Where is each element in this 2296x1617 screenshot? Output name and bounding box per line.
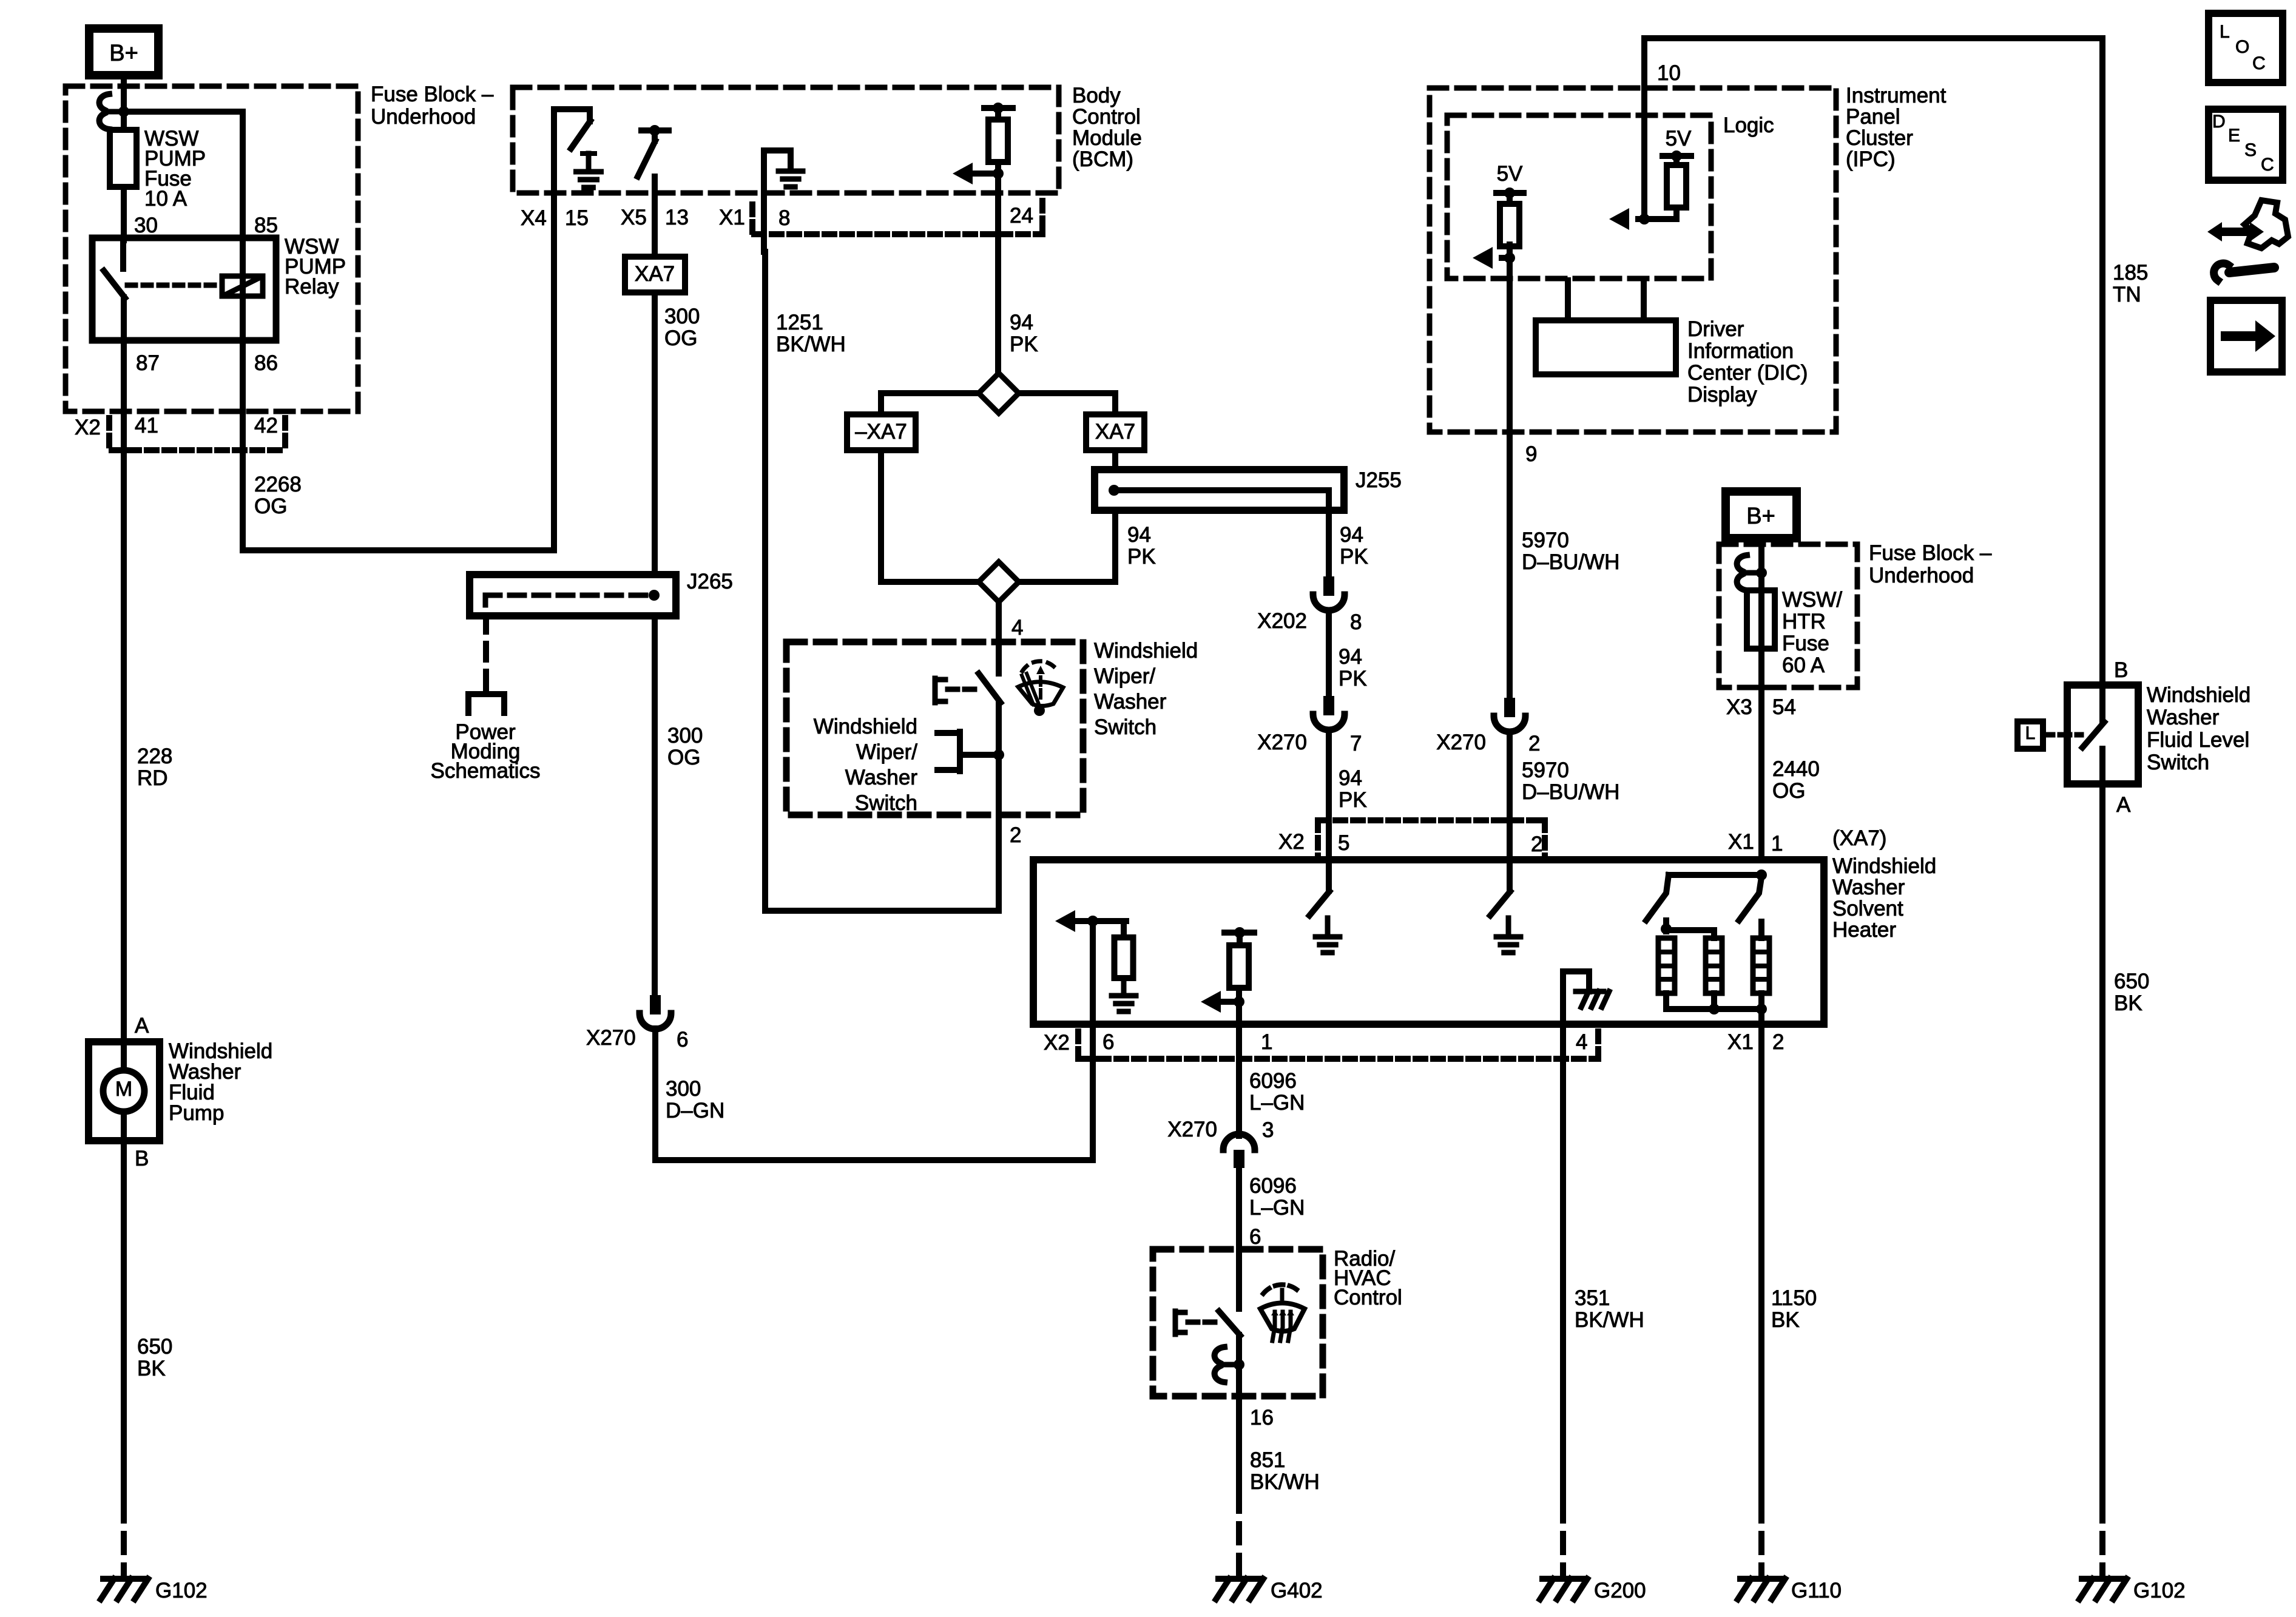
label driver information center (1687, 317, 1808, 407)
pin 85 label (254, 214, 278, 237)
svg-text:(BCM): (BCM) (1072, 147, 1133, 171)
svg-text:X270: X270 (1436, 731, 1486, 754)
ground symbol heater 2 (1496, 918, 1521, 953)
wiper glyph (washer symbol) (1018, 661, 1063, 716)
BCM internal switch to ground (X4-15) (554, 109, 590, 149)
label 300 OG upper (664, 305, 700, 350)
wire 5970 to heater X2-2 (1507, 733, 1513, 860)
svg-text:94: 94 (1339, 645, 1362, 669)
relay switch arm (104, 271, 125, 298)
heater resistor left branch (1093, 921, 1133, 978)
svg-text:Display: Display (1687, 383, 1757, 407)
pin 6 label radio (1249, 1225, 1261, 1249)
label 650 BK right (2114, 970, 2149, 1015)
5V source right (logic) (1663, 127, 1692, 165)
off-page fork symbol (468, 684, 504, 713)
driver information center DIC display box (1536, 280, 1676, 374)
radio actuator bracket E (1175, 1311, 1218, 1334)
fluid switch lower stub (2099, 749, 2105, 784)
svg-text:94: 94 (1010, 311, 1033, 334)
pin X1 1 labels (1728, 830, 1783, 856)
pin X3 54 labels (1726, 695, 1796, 719)
wire 851 BK/WH (1236, 1396, 1242, 1573)
svg-text:Washer: Washer (845, 766, 918, 789)
wire 300 OG upper (652, 292, 658, 575)
pin 42 label (254, 414, 278, 437)
wire 94 PK to heater X2-5 (1326, 733, 1332, 860)
label 351 BK/WH (1575, 1286, 1644, 1332)
connector X270 pin 7 (1313, 696, 1345, 730)
fuse clip (100, 94, 119, 129)
svg-text:6: 6 (1102, 1030, 1114, 1054)
label 650 BK left (137, 1335, 172, 1380)
svg-text:Center (DIC): Center (DIC) (1687, 361, 1808, 385)
svg-text:851: 851 (1250, 1448, 1285, 1472)
svg-text:Solvent: Solvent (1832, 897, 1903, 920)
svg-text:650: 650 (2114, 970, 2149, 993)
label 1251 BK/WH (776, 311, 846, 356)
connector XA7 box (625, 257, 685, 292)
label 94 PK right (1340, 523, 1368, 569)
wire 6096 L-GN upper (1236, 1024, 1242, 1136)
svg-text:8: 8 (1350, 610, 1362, 634)
label 2268 OG (254, 473, 302, 518)
svg-text:X270: X270 (1257, 731, 1307, 754)
label 185 TN (2113, 261, 2148, 306)
svg-text:Washer: Washer (1832, 876, 1905, 899)
svg-text:Fuse: Fuse (1782, 632, 1829, 655)
svg-text:Windshield: Windshield (1832, 854, 1936, 878)
svg-text:L: L (2220, 22, 2230, 42)
pin 4 label (1011, 616, 1023, 640)
svg-text:(IPC): (IPC) (1846, 147, 1896, 171)
svg-text:94: 94 (1340, 523, 1363, 547)
pin B label pump (135, 1147, 149, 1170)
BCM pull-up resistor pin 24 (984, 103, 1013, 373)
svg-text:L–GN: L–GN (1249, 1196, 1305, 1220)
label instrument panel cluster (1846, 84, 1947, 171)
svg-text:1251: 1251 (776, 311, 823, 334)
svg-text:S: S (2244, 140, 2257, 160)
junction dot radio (1234, 1359, 1244, 1370)
svg-text:Driver: Driver (1687, 317, 1744, 341)
icon box LOC (2209, 13, 2283, 83)
svg-text:Information: Information (1687, 339, 1794, 363)
wiper switch arm (979, 673, 1001, 703)
label power moding schematics (431, 720, 541, 783)
svg-text:1: 1 (1261, 1030, 1272, 1054)
label 94 PK low (1339, 766, 1367, 812)
wire diamond to XA7 box (1019, 393, 1115, 414)
svg-text:D–BU/WH: D–BU/WH (1522, 550, 1619, 574)
svg-text:G402: G402 (1271, 1579, 1323, 1602)
wire 650 BK right (2099, 784, 2105, 1573)
svg-text:B+: B+ (1746, 504, 1775, 529)
svg-text:10 A: 10 A (144, 187, 187, 211)
wire 94 PK left of J255 (1019, 510, 1115, 582)
diamond junction lower (979, 562, 1019, 602)
BCM pin row labels (521, 204, 1033, 230)
wiper switch detent bracket (937, 732, 999, 771)
heater elements bottom bus (1666, 993, 1767, 1024)
labels X2 6 1 4 (1044, 1030, 1587, 1055)
label 94 PK mid (1339, 645, 1367, 690)
svg-text:OG: OG (664, 326, 697, 350)
svg-text:4: 4 (1011, 616, 1023, 640)
label windshield washer solvent heater (1832, 826, 1886, 850)
label X270 (7) (1257, 731, 1362, 755)
svg-text:2268: 2268 (254, 473, 302, 496)
junction dot node B+ feed (118, 106, 129, 117)
heater switch to ground (pin5) (1309, 860, 1329, 916)
label X270 (2) (1436, 731, 1540, 755)
connector XA7 box right (1086, 414, 1144, 450)
wire relay 30-87 through (121, 297, 127, 340)
label 300 D-GN (666, 1077, 724, 1122)
labels X1 2 bottom (1727, 1030, 1784, 1054)
heater arrow out pin6 (1055, 910, 1098, 932)
pin 9 label (1525, 442, 1537, 466)
connector X2 row (pins 41 42) (109, 418, 285, 450)
svg-text:60 A: 60 A (1782, 653, 1825, 677)
svg-text:X202: X202 (1257, 609, 1307, 633)
svg-text:X2: X2 (1044, 1031, 1070, 1055)
svg-text:TN: TN (2113, 283, 2141, 306)
svg-text:B+: B+ (109, 41, 138, 66)
svg-text:Switch: Switch (1094, 715, 1156, 739)
svg-text:PK: PK (1340, 545, 1368, 569)
svg-text:15: 15 (565, 206, 589, 230)
svg-text:D: D (2212, 112, 2226, 132)
svg-text:X4: X4 (521, 206, 547, 230)
svg-text:10: 10 (1657, 61, 1681, 85)
connector X2 top row (5,2) (1318, 820, 1545, 857)
level sensor L box (2017, 721, 2043, 749)
svg-text:G102: G102 (2133, 1579, 2186, 1602)
pin 86 label (254, 351, 278, 375)
wire feed to relay pin 85 (124, 112, 243, 240)
svg-text:XA7: XA7 (1095, 420, 1135, 444)
wire 5V left down to pin 9 (1507, 258, 1513, 432)
fuse block underhood dashed box (66, 86, 358, 411)
svg-text:Underhood: Underhood (1869, 564, 1974, 587)
svg-text:G102: G102 (155, 1579, 208, 1602)
svg-text:X1: X1 (1727, 1030, 1754, 1054)
svg-text:300: 300 (666, 1077, 701, 1101)
windshield washer fluid level switch box (2067, 685, 2138, 784)
label J255 (1356, 468, 1402, 492)
svg-text:Cluster: Cluster (1846, 126, 1913, 150)
wire relay 85-86 through (240, 238, 246, 340)
ground symbol in BCM left (576, 154, 601, 187)
power symbol B+ right (1726, 491, 1797, 538)
svg-text:1150: 1150 (1771, 1286, 1817, 1310)
svg-text:Instrument: Instrument (1846, 84, 1947, 107)
svg-text:24: 24 (1010, 204, 1033, 228)
relay WSW PUMP box (92, 238, 276, 340)
label X270 (6) (586, 1026, 688, 1052)
svg-text:Body: Body (1072, 84, 1121, 107)
5V source left (1496, 162, 1524, 204)
svg-text:C: C (2252, 53, 2266, 73)
svg-text:6: 6 (1249, 1225, 1261, 1249)
label heater name (1832, 854, 1936, 942)
heater element 2 (1706, 938, 1722, 993)
icon box arrow right (2210, 300, 2282, 372)
label 851 BK/WH (1250, 1448, 1320, 1494)
heater element 1 (1658, 938, 1675, 993)
svg-text:300: 300 (667, 724, 703, 748)
svg-text:Washer: Washer (1094, 690, 1167, 714)
svg-text:228: 228 (137, 744, 172, 768)
radio switch arm (1219, 1311, 1240, 1335)
svg-text:Control: Control (1072, 105, 1141, 129)
label WSW HTR fuse 60 A (1782, 588, 1842, 677)
fuse clip 2 (1737, 555, 1757, 590)
wire pump B to G102 (650 BK) (121, 1141, 127, 1573)
label fuse block underhood 2 (1869, 541, 1992, 587)
fuse WSW/HTR 60A (1747, 590, 1775, 687)
connector X270 pin 3 (1223, 1134, 1255, 1168)
signal arrow left (pin9) (1473, 247, 1515, 269)
label 5970 upper (1522, 528, 1619, 574)
label WSW PUMP relay (285, 235, 346, 299)
svg-text:J265: J265 (687, 570, 733, 593)
wire diamond to -XA7 (881, 393, 979, 414)
svg-text:13: 13 (665, 206, 689, 229)
wire XA7 into J255 (1112, 450, 1118, 470)
svg-text:L–GN: L–GN (1249, 1091, 1305, 1115)
svg-text:X5: X5 (621, 206, 647, 229)
heater switch to ground (pin2) (1490, 860, 1510, 916)
wire 1251 BK/WH (765, 252, 999, 911)
svg-text:D–BU/WH: D–BU/WH (1522, 780, 1619, 804)
svg-text:Switch: Switch (855, 791, 917, 815)
pin A label fluid switch (2116, 793, 2131, 817)
wire B+ to fuse (121, 75, 127, 114)
pin A label pump (135, 1014, 149, 1038)
svg-text:Relay: Relay (285, 275, 339, 299)
wire 94 PK mid (1326, 612, 1332, 696)
svg-text:85: 85 (254, 214, 278, 237)
svg-text:5970: 5970 (1522, 528, 1569, 552)
svg-text:OG: OG (1772, 779, 1805, 803)
heater arrow out pin1 (1201, 991, 1244, 1013)
dashed link L to switch (2043, 732, 2081, 738)
ground G102 left (101, 1579, 208, 1602)
pin 2 label (1010, 823, 1021, 847)
svg-text:WSW/: WSW/ (1782, 588, 1842, 612)
svg-text:J255: J255 (1356, 468, 1402, 492)
ground symbol heater 3 (1112, 978, 1136, 1011)
dashed wire to power moding (483, 616, 489, 687)
svg-text:650: 650 (137, 1335, 172, 1359)
body control module BCM dashed box (513, 87, 1059, 193)
svg-text:A: A (135, 1014, 149, 1038)
fuse WSW PUMP 10A (110, 114, 137, 240)
diamond junction upper (979, 373, 1019, 413)
svg-text:2440: 2440 (1772, 757, 1820, 781)
power symbol B+ (battery feed, fuse block) (89, 29, 158, 75)
svg-text:BK/WH: BK/WH (1250, 1470, 1320, 1494)
svg-text:G200: G200 (1594, 1579, 1646, 1602)
label fuse block underhood (371, 83, 494, 129)
svg-text:2: 2 (1010, 823, 1021, 847)
heater resistor pin1 branch (1224, 927, 1254, 1024)
svg-text:HTR: HTR (1782, 610, 1826, 633)
svg-text:Switch: Switch (2147, 751, 2209, 774)
connector X2 bottom row (6,1,4) (1078, 1031, 1598, 1061)
connector X202 pin 8 (1313, 576, 1345, 610)
svg-text:X1: X1 (719, 206, 745, 229)
label WSW PUMP Fuse 10 A (144, 127, 206, 211)
wire 300 D-GN (655, 1028, 1093, 1160)
svg-text:X3: X3 (1726, 695, 1752, 719)
label Logic (1723, 113, 1774, 137)
svg-text:Schematics: Schematics (431, 759, 541, 783)
pin 10 label (1657, 61, 1681, 85)
heater switch arm left (1646, 875, 1669, 920)
label 6096 lower (1249, 1174, 1305, 1220)
svg-text:O: O (2235, 37, 2249, 57)
svg-text:E: E (2228, 126, 2240, 146)
junction dot fuse 2 (1756, 567, 1767, 578)
label 228 RD (137, 744, 172, 790)
svg-text:OG: OG (254, 495, 287, 518)
label radio hvac control (1334, 1247, 1402, 1309)
signal arrow BCM pin 24 (953, 163, 1004, 184)
fuse block underhood 2 dashed box (1719, 544, 1857, 687)
svg-text:D–GN: D–GN (666, 1099, 724, 1122)
label X270 (3) (1167, 1118, 1274, 1142)
heater element stub left (1661, 920, 1714, 938)
label X2 (75, 416, 101, 439)
svg-text:6096: 6096 (1249, 1174, 1297, 1198)
svg-text:3: 3 (1262, 1118, 1274, 1142)
heater element 3 (1753, 922, 1769, 993)
svg-text:Fuse Block –: Fuse Block – (371, 83, 494, 106)
label 2440 OG (1772, 757, 1820, 803)
wire 87 to pump (228 RD) (121, 340, 127, 1042)
icon box DESC (2209, 109, 2283, 180)
label 94 PK (pin24) (1010, 311, 1038, 356)
svg-text:RD: RD (137, 766, 168, 790)
svg-text:Washer: Washer (2147, 706, 2220, 729)
svg-text:351: 351 (1575, 1286, 1610, 1310)
chassis ground symbol internal (1576, 991, 1609, 1007)
svg-text:X270: X270 (1167, 1118, 1217, 1141)
wire 5970 D-BU/WH upper (1507, 432, 1513, 698)
svg-text:5V: 5V (1666, 127, 1692, 150)
label windshield wiper washer switch outer (1094, 639, 1198, 739)
svg-text:BK: BK (1771, 1308, 1800, 1332)
wire 300 OG lower (652, 616, 658, 995)
svg-text:BK/WH: BK/WH (1575, 1308, 1644, 1332)
svg-text:5970: 5970 (1522, 758, 1569, 782)
svg-text:2: 2 (1531, 832, 1542, 856)
instrument panel cluster dashed box (1430, 88, 1836, 432)
heater switch arm right (1739, 877, 1761, 920)
svg-text:Pump: Pump (169, 1101, 224, 1125)
svg-text:5: 5 (1338, 831, 1349, 855)
BCM internal ground hook (X1-8) (764, 150, 791, 252)
svg-text:A: A (2116, 793, 2131, 817)
svg-text:41: 41 (135, 414, 158, 437)
pin 16 label (1250, 1406, 1274, 1430)
svg-text:Module: Module (1072, 126, 1142, 150)
svg-text:30: 30 (134, 214, 158, 237)
wire 1150 BK (1758, 1024, 1764, 1573)
radio clip contact (1215, 1347, 1234, 1382)
svg-text:BK/WH: BK/WH (776, 333, 846, 356)
svg-text:300: 300 (664, 305, 700, 328)
svg-text:Heater: Heater (1832, 918, 1896, 942)
wiper switch actuator bracket E (935, 678, 978, 703)
svg-text:Windshield: Windshield (2147, 683, 2250, 707)
svg-text:87: 87 (136, 351, 160, 375)
relay coil (222, 276, 263, 296)
label windshield washer fluid pump (169, 1039, 272, 1125)
label windshield wiper washer switch inner (814, 715, 918, 815)
svg-text:–XA7: –XA7 (855, 420, 907, 444)
icon wrench route (2207, 200, 2288, 280)
wire X5-13 to XA7 (652, 177, 658, 257)
resistor 5V left (1500, 204, 1519, 258)
label body control module BCM (1072, 84, 1142, 171)
svg-text:L: L (2025, 723, 2036, 743)
signal arrow into logic (pin10) (1609, 208, 1676, 230)
svg-text:BK: BK (2114, 991, 2142, 1015)
svg-text:PK: PK (1339, 788, 1367, 812)
svg-text:X1: X1 (1728, 830, 1754, 854)
svg-text:X270: X270 (586, 1026, 636, 1050)
label 94 PK left (1127, 523, 1156, 569)
svg-text:PK: PK (1339, 667, 1367, 690)
wire top line pin 10 to fluid switch (1644, 38, 2102, 685)
svg-text:86: 86 (254, 351, 278, 375)
pin B label fluid switch (2114, 658, 2128, 682)
svg-text:B: B (135, 1147, 149, 1170)
svg-text:54: 54 (1772, 695, 1796, 719)
radio switch wire down (1236, 1335, 1242, 1396)
windshield washer solvent heater box (1033, 860, 1824, 1024)
svg-text:6: 6 (677, 1028, 688, 1052)
svg-text:94: 94 (1127, 523, 1151, 547)
svg-text:M: M (115, 1078, 132, 1101)
label 1150 BK (1771, 1286, 1817, 1332)
svg-text:Fluid Level: Fluid Level (2147, 728, 2249, 752)
pin 87 label (136, 351, 160, 375)
svg-text:185: 185 (2113, 261, 2148, 285)
connector X270 pin 2 (1494, 698, 1525, 732)
svg-text:Control: Control (1334, 1286, 1402, 1309)
resistor 5V right (1667, 165, 1686, 219)
svg-text:16: 16 (1250, 1406, 1274, 1430)
label windshield washer fluid level switch (2147, 683, 2250, 774)
svg-text:XA7: XA7 (635, 262, 675, 286)
defroster glyph (1260, 1284, 1305, 1341)
wiper switch wire to pin 2 (993, 703, 1004, 815)
svg-text:1: 1 (1771, 832, 1783, 856)
svg-text:Fuse Block –: Fuse Block – (1869, 541, 1992, 565)
wire pin6 down (1090, 921, 1096, 1160)
connector -XA7 box (847, 414, 916, 450)
pin 41 label (135, 414, 158, 437)
motor M windshield washer fluid pump (89, 1042, 160, 1141)
heater relay switches bus (1669, 869, 1767, 880)
ground G200 (1540, 1579, 1646, 1602)
wire diamond to wiper switch pin 4 (996, 602, 1002, 673)
